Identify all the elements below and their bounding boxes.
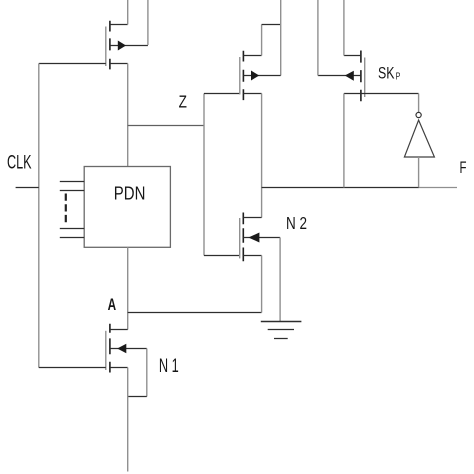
N2 bulk stub xyxy=(243,237,280,239)
N1 drain stub xyxy=(110,329,128,331)
wire inverter output to F xyxy=(418,157,420,188)
N2 bulk arrow xyxy=(248,233,259,243)
wire P1 source down to PDN xyxy=(127,64,129,167)
P1 source stub xyxy=(110,63,128,65)
wire N1 gate from CLK rail xyxy=(39,367,106,369)
svg-text:A: A xyxy=(108,295,117,314)
P1 bulk wire to top xyxy=(147,0,149,45)
PDN input line 4 xyxy=(60,237,84,239)
P2 bulk stub xyxy=(243,75,280,77)
P1 bulk stub xyxy=(110,45,148,47)
svg-text:Z: Z xyxy=(179,92,188,112)
PDN input line 3 xyxy=(60,228,84,230)
svg-text:CLK: CLK xyxy=(7,152,32,173)
PDN box xyxy=(84,167,170,248)
wire P3 source down to F xyxy=(343,94,345,188)
transistor P3 gate line xyxy=(364,58,366,98)
transistor N1 gate line xyxy=(105,331,107,370)
N2 drain stub xyxy=(243,217,261,219)
svg-text:SK: SK xyxy=(378,64,395,83)
wire P1 gate from CLK rail xyxy=(39,63,106,65)
P3 bulk wire to top xyxy=(317,0,319,76)
wire N2 source to node A xyxy=(261,256,263,313)
transistor N2 gate line xyxy=(239,218,241,258)
transistor P2 gate line xyxy=(239,57,241,94)
PDN input line 1 xyxy=(60,181,84,183)
wire CLK input stub xyxy=(16,187,39,189)
svg-text:PDN: PDN xyxy=(114,182,146,203)
N2 channel xyxy=(242,213,244,262)
wire P2 gate xyxy=(204,93,240,95)
wire Z vertical to gates xyxy=(203,94,205,256)
N1 source stub xyxy=(110,367,128,369)
svg-text:N 1: N 1 xyxy=(159,356,179,377)
P1 drain wire to top xyxy=(127,0,129,25)
wire PDN bottom to node A xyxy=(127,247,129,329)
N1 bulk stub xyxy=(110,348,147,350)
P3 channel xyxy=(360,51,362,102)
wire P2 source to N2 drain xyxy=(261,94,263,218)
inverter bubble xyxy=(416,112,421,117)
P2 supply wire xyxy=(280,0,282,76)
wire CLK rail xyxy=(38,64,40,368)
wire node F horizontal xyxy=(262,187,419,189)
N1 bulk arrow xyxy=(117,344,126,354)
ground xyxy=(261,321,302,323)
wire node A horizontal xyxy=(128,312,262,314)
P2 bulk arrow xyxy=(251,71,259,81)
P2 drain zigzag to supply xyxy=(261,25,263,56)
svg-text:F: F xyxy=(460,159,467,177)
wire inverter input xyxy=(418,94,420,113)
svg-text:P: P xyxy=(396,72,401,83)
P2 source stub xyxy=(243,93,261,95)
wire node Z horizontal xyxy=(128,125,204,127)
PDN input line 2 xyxy=(60,190,84,192)
P3 drain wire to top xyxy=(343,0,345,56)
P2 channel xyxy=(242,51,244,100)
PDN inputs ellipsis dashed line xyxy=(65,194,67,226)
wire N2 gate xyxy=(204,255,240,257)
P3 bulk arrow xyxy=(345,71,354,81)
svg-text:N 2: N 2 xyxy=(286,213,307,233)
transistor P1 gate line xyxy=(105,27,107,67)
P3 source wire to inverter input xyxy=(344,93,419,95)
P3 drain stub xyxy=(344,55,361,57)
P3 bulk stub xyxy=(318,75,361,77)
wire N1 source down xyxy=(127,368,129,472)
P1 bulk arrow xyxy=(118,41,126,51)
inverter U1 triangle xyxy=(404,120,434,157)
N2 source stub xyxy=(243,255,261,257)
N1 bulk loop xyxy=(146,349,148,397)
P1 drain stub xyxy=(110,24,128,26)
N1 channel xyxy=(109,324,111,373)
P1 channel xyxy=(109,21,111,70)
wire N2 bulk to ground xyxy=(279,238,281,322)
P2 drain stub xyxy=(243,55,261,57)
